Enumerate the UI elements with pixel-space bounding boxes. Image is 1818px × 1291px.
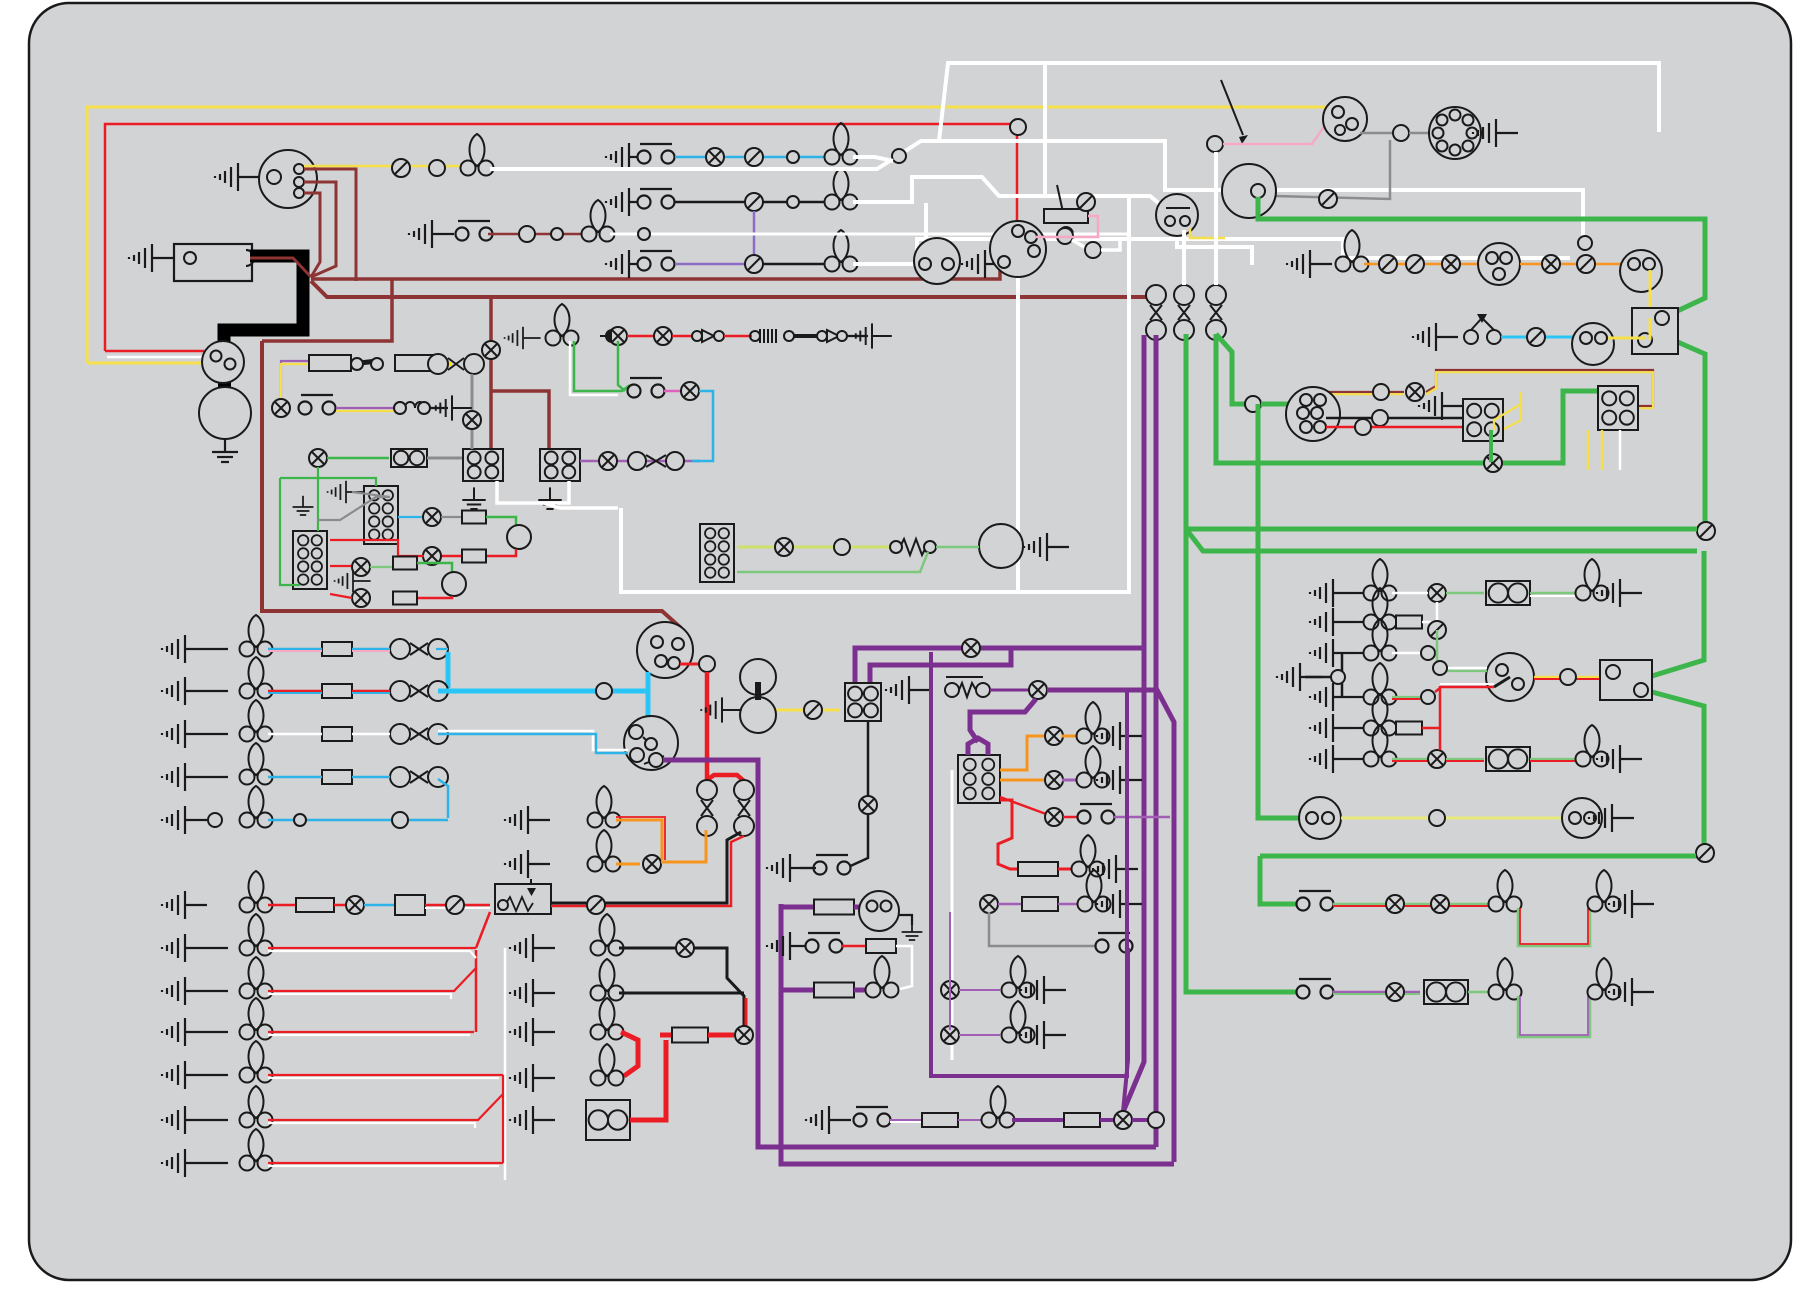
row D ground — [162, 763, 207, 791]
row2 ground — [431, 395, 472, 420]
map gnd1 — [1021, 976, 1066, 1004]
row C ground — [162, 720, 207, 748]
wire B cyan2 — [268, 692, 322, 694]
wire D w1 — [268, 776, 322, 779]
wire A pink — [268, 650, 322, 652]
wire T0 yellow — [304, 165, 467, 168]
orange slash2 — [1406, 255, 1424, 273]
horns node — [1429, 810, 1445, 826]
row M1 bulb — [591, 914, 624, 956]
wire orange heat2 — [1000, 779, 1046, 782]
multi connector — [1429, 107, 1481, 159]
r336 lampX1 — [609, 327, 627, 345]
gauge2 — [442, 572, 466, 596]
wire lilac bm2b — [1058, 903, 1080, 906]
wire red P5 — [1422, 727, 1440, 730]
wire purple V1144 — [1142, 335, 1147, 648]
wire O1 orange — [616, 820, 662, 860]
arrow ignition — [1221, 80, 1243, 135]
heat gnd1 — [1097, 722, 1142, 750]
multi conn ground — [1473, 119, 1518, 147]
green node slash — [1697, 522, 1715, 540]
wire lilac map2 — [959, 1034, 1000, 1036]
wire P3 lead — [1355, 652, 1368, 654]
wire green V2b — [1216, 334, 1250, 404]
wire gray web — [352, 492, 390, 497]
P2 fuse — [1396, 616, 1422, 629]
wire green V2 — [1216, 334, 1600, 463]
wire red r336c — [724, 335, 752, 338]
row E node2 — [294, 814, 306, 826]
fl lampX — [463, 411, 481, 429]
WE node2 — [1085, 242, 1101, 258]
row D bulb — [240, 743, 273, 785]
voltage regulator — [495, 884, 551, 914]
drop switch — [814, 855, 851, 875]
row T4 ground — [409, 220, 454, 248]
wire green drop336 — [618, 341, 625, 391]
P6 lampX — [1428, 750, 1446, 768]
drop ground — [767, 854, 812, 882]
gauge2 fuse2 — [393, 592, 417, 605]
map bulb2 — [1002, 1001, 1035, 1043]
wire G0 red — [268, 947, 476, 949]
P3 bulb — [1364, 619, 1397, 661]
ignsw node — [1433, 661, 1447, 675]
wire maroon main drop — [262, 341, 681, 628]
wire C white — [438, 731, 628, 750]
bm2 fuse — [1022, 897, 1058, 911]
wire fan up — [476, 912, 490, 948]
row M1 ground — [510, 934, 555, 962]
sw2 lampX1 — [1386, 983, 1404, 1001]
sw2 gnd — [1609, 978, 1654, 1006]
TP1 — [1146, 285, 1166, 340]
orange slash1 — [1379, 255, 1397, 273]
wire gray bm2 drop — [989, 912, 1098, 946]
P1 lampX — [1428, 584, 1446, 602]
row M3 ground — [510, 1018, 555, 1046]
wire M2 black — [619, 992, 744, 995]
wire maroon run B — [311, 281, 1148, 297]
wire lilac bm2 — [998, 903, 1022, 906]
heat bulb2 — [1077, 746, 1110, 788]
wire red gauge2 — [417, 596, 452, 598]
wire red zig — [998, 800, 1018, 869]
wire purple Q5 — [1132, 1118, 1148, 1122]
P5 fuse — [1396, 722, 1422, 735]
wire green P1 — [1446, 592, 1484, 595]
row G5 ground — [162, 1149, 207, 1177]
conn A — [463, 449, 503, 481]
distributor — [259, 150, 317, 208]
speedo row bulb — [1336, 230, 1369, 272]
wire purple heater2 — [970, 699, 1036, 742]
wire yellow-green horn — [737, 546, 900, 549]
wire M3 red thick — [621, 1032, 638, 1076]
wire lilac Q — [890, 1119, 922, 1121]
gauge2 lampX — [352, 558, 370, 576]
wire P1 lead — [1355, 592, 1368, 594]
wire white Q — [890, 1121, 922, 1123]
sw1 gnd — [1609, 890, 1654, 918]
row O2 bulb — [588, 830, 621, 872]
wire green chev3 — [1652, 692, 1704, 844]
wire white W4 — [939, 63, 1659, 141]
py tph — [428, 354, 484, 374]
line fuse — [1044, 209, 1088, 223]
wire white tp3 stub — [1214, 152, 1218, 285]
r336 coil — [750, 329, 794, 343]
ignition switch — [1323, 97, 1367, 141]
wire A lead — [207, 648, 228, 650]
wire green ignsw — [1440, 670, 1487, 672]
wire green web4 — [318, 497, 390, 520]
wire C w1 — [268, 733, 322, 736]
sw1 lampX2 — [1431, 895, 1449, 913]
wire red gauge1 — [441, 549, 516, 556]
wire T4 maroon — [488, 233, 586, 236]
wire green horn3 — [936, 546, 979, 549]
wire red P6b — [1439, 728, 1442, 750]
row T1 lamp — [706, 148, 724, 166]
wire cyan corner — [692, 391, 713, 461]
wire drop lead — [800, 867, 816, 869]
wire M1 black — [619, 948, 744, 1026]
wire O2 orange — [616, 863, 640, 866]
row T2 node — [787, 196, 799, 208]
wire cyan bigU — [640, 689, 648, 694]
wire red r336 — [627, 335, 654, 338]
gauge1 fuse2 — [462, 550, 486, 563]
alternator slash — [1319, 190, 1337, 208]
wire purple heat3 — [1114, 816, 1170, 819]
row F ground — [162, 891, 207, 919]
row B fuse — [322, 684, 352, 698]
WA node2 — [1578, 236, 1592, 250]
wire red gauge2b — [330, 594, 352, 598]
wire red ign — [680, 663, 700, 666]
wire maroon dist 2 — [304, 182, 336, 277]
ignition node — [1207, 136, 1223, 152]
wire red heat2 — [1063, 816, 1078, 819]
wire red r336b — [672, 335, 694, 338]
wire yellow supply top — [87, 107, 1350, 363]
green lamp — [1484, 454, 1502, 472]
heat gnd2 — [1097, 766, 1142, 794]
P2 bulb — [1364, 588, 1397, 630]
gauge1 lampX — [423, 508, 441, 526]
wire pair right — [1426, 370, 1653, 406]
wire pink fuse — [1035, 216, 1098, 237]
row E node3 — [392, 812, 408, 828]
horn sounder ground — [1024, 533, 1069, 561]
starter motor — [199, 387, 251, 439]
wire red flasher feed — [1016, 124, 1019, 228]
wire B lead — [207, 690, 228, 692]
bm2 lampX — [980, 895, 998, 913]
wire green h529 — [1186, 527, 1697, 532]
wire green ring right — [1652, 551, 1704, 676]
wire red P6d — [1530, 760, 1576, 762]
wire G2 lead — [207, 1031, 228, 1033]
wire G4 lead — [207, 1119, 228, 1121]
wire purple fuelrow — [781, 905, 814, 910]
WA node — [892, 149, 906, 163]
wire yellow connB2 — [1601, 430, 1604, 470]
int bulb — [866, 956, 899, 998]
column connector — [914, 238, 960, 284]
wire maroon jog — [262, 279, 392, 341]
wire white elbow2 — [570, 341, 618, 395]
wire black fuel — [898, 915, 912, 925]
wire green gauge1 — [486, 517, 516, 526]
wire magenta r391 — [664, 390, 682, 393]
wire P6 lead — [1355, 758, 1368, 760]
P5 ground — [1310, 714, 1355, 742]
row T1 ground — [606, 143, 651, 171]
wire G0 white — [268, 951, 476, 958]
wire orange speedo — [1520, 263, 1628, 266]
instrument cluster — [1286, 387, 1340, 441]
wire white heater — [951, 770, 954, 1060]
r336 diode — [692, 331, 702, 341]
wire white WB — [853, 157, 893, 161]
heater conn — [958, 755, 1000, 803]
int fuse — [814, 983, 854, 998]
wire yellow connB1 — [1587, 430, 1590, 470]
row G2 bulb — [240, 998, 273, 1040]
row D tph — [390, 767, 448, 787]
wire F red2 — [334, 904, 346, 907]
wire purple inner ring — [931, 652, 1127, 1076]
bm2 bulb — [1078, 870, 1111, 912]
B node — [596, 683, 612, 699]
wire purple Q4 — [1100, 1118, 1114, 1122]
row2 lampX — [272, 399, 290, 417]
wire white conn out — [544, 503, 618, 508]
wire green V1 — [1186, 334, 1300, 992]
mid lampX — [962, 639, 980, 657]
wire yellow to solenoid — [87, 362, 203, 365]
M3 lampX2 — [735, 1026, 753, 1044]
M3 fuse — [672, 1028, 708, 1043]
row G4 bulb — [240, 1086, 273, 1128]
wire yellow gauge — [1608, 337, 1645, 340]
wire green h855 — [1260, 854, 1696, 859]
fuel gauge — [1572, 323, 1614, 365]
wire pink ignition — [1223, 112, 1334, 144]
wire white WA — [490, 141, 1583, 238]
wire red supply top — [105, 124, 1017, 351]
wire purple mid 2 — [870, 650, 1011, 686]
relay right — [1600, 660, 1652, 700]
horn sounder — [979, 524, 1023, 568]
conn8 upper ground — [328, 481, 364, 503]
wire red P6 — [1392, 760, 1428, 762]
wire B cyan — [438, 689, 646, 694]
wire white connB — [1619, 430, 1622, 470]
ign sw right — [1486, 653, 1534, 701]
rowQ bulb — [982, 1086, 1015, 1128]
wire maroon coil link — [250, 258, 311, 277]
wire yellow speedo — [1649, 270, 1652, 318]
wire white col2 — [924, 203, 928, 252]
wire red P4b — [1435, 688, 1440, 728]
P1 box2 — [1486, 581, 1530, 605]
row T4 node2 — [551, 228, 563, 240]
wire T2 black — [675, 201, 830, 204]
conn8 upper — [364, 486, 398, 544]
wire A w2 — [352, 648, 390, 651]
wire T3 black — [763, 263, 830, 266]
row2 coil — [395, 402, 425, 408]
r391 gstub — [505, 327, 541, 349]
row M4 bulb — [591, 1044, 624, 1086]
flasher unit — [990, 221, 1046, 277]
wire orange heat1b — [1062, 735, 1076, 738]
wire red P4 — [1392, 698, 1420, 700]
r336 ground — [851, 323, 892, 348]
drop lampX — [859, 796, 877, 814]
wire A w1 — [268, 648, 322, 651]
rowQ node — [1148, 1112, 1164, 1128]
rheostat — [1464, 330, 1478, 344]
wire green chev2 — [1673, 340, 1705, 525]
wire py to fuse — [281, 360, 308, 362]
wire purple V1156b — [1154, 1128, 1159, 1147]
wire greenred sw1 — [1333, 903, 1490, 906]
row B ground — [162, 677, 207, 705]
P3 ground — [1310, 639, 1355, 667]
P2 ground — [1310, 608, 1355, 636]
P1 bulb — [1364, 559, 1397, 601]
wire purple od — [663, 760, 758, 880]
gauge1 fuse — [462, 511, 486, 524]
P5 bulb — [1364, 694, 1397, 736]
M5 box2 — [586, 1100, 630, 1140]
wire yellow relayrow — [770, 709, 840, 712]
wire purple heat2b — [1062, 779, 1076, 782]
horn2 — [1562, 798, 1602, 838]
row B tph — [390, 681, 448, 701]
sw2 bulb2 — [1588, 958, 1621, 1000]
fuel pump — [859, 891, 899, 931]
wire F white — [425, 907, 490, 909]
heat switch — [1078, 804, 1115, 824]
wire P2 lead — [1355, 621, 1368, 623]
wire white ignsw — [1440, 667, 1487, 670]
cluster node r — [1355, 419, 1371, 435]
wire redwhite pair — [1440, 686, 1494, 688]
wire orange tacho — [1364, 263, 1478, 266]
wire green main — [1258, 197, 1705, 313]
wire sw2 U pur — [1520, 996, 1588, 1035]
wire D lead — [207, 776, 228, 778]
wire purple diag — [1123, 648, 1144, 1112]
row T3 bulb — [825, 230, 858, 272]
wire gray alternator — [1274, 140, 1390, 199]
wire white P1 — [1392, 592, 1428, 595]
heat lampX1 — [1045, 727, 1063, 745]
bm switch — [806, 933, 843, 953]
heat fuse — [1018, 862, 1058, 876]
ignsw node2 — [1560, 669, 1576, 685]
wire purple K2 — [1047, 690, 1174, 1162]
P4 bulb — [1364, 663, 1397, 705]
P6 ground — [1310, 745, 1355, 773]
wire B w1 — [268, 690, 322, 693]
conn A ground — [1419, 392, 1464, 420]
horn2 gnd — [1589, 804, 1634, 832]
alternator — [1222, 164, 1276, 218]
wire cyan gauge1 — [398, 516, 424, 518]
O2 lampX — [643, 855, 661, 873]
wire red low — [330, 565, 352, 567]
P1 gnd2 — [1597, 579, 1642, 607]
wire purple ringB — [781, 904, 1174, 1164]
wire purple int2 — [854, 988, 866, 993]
flasher node — [1010, 119, 1026, 135]
wire purple mid top — [855, 648, 1144, 686]
conn B ground2 — [538, 487, 561, 509]
wire purple heater — [968, 738, 988, 755]
row E node — [208, 813, 222, 827]
row T1 node — [787, 151, 799, 163]
wire purple-yellow drop — [280, 360, 282, 406]
heat bulb3 — [1072, 835, 1105, 877]
py fuse2 — [395, 355, 437, 371]
wire gray fl drop — [471, 374, 474, 449]
sw1 bulb1 — [1489, 870, 1522, 912]
rowQ fuse2 — [1064, 1113, 1100, 1127]
wire green web1 — [317, 467, 319, 531]
maroon lampX — [482, 341, 500, 359]
heat lampX3 — [1045, 808, 1063, 826]
row G5 bulb — [240, 1129, 273, 1171]
tachometer — [1478, 243, 1520, 285]
fork ground — [1277, 663, 1322, 691]
M1 lampX — [676, 939, 694, 957]
wire M2 red — [745, 998, 748, 1026]
T0 bulb — [461, 134, 494, 176]
wire green P6 — [1392, 758, 1428, 760]
wire green V3b — [1258, 552, 1303, 818]
row2 switch — [299, 395, 336, 415]
row C bulb — [240, 700, 273, 742]
row C fuse — [322, 727, 352, 741]
row T3 connector — [745, 255, 763, 273]
row T1 connector — [745, 148, 763, 166]
wire green ctrl — [327, 457, 389, 460]
r336 lampX2 — [654, 327, 672, 345]
WE node — [1057, 228, 1073, 244]
row G3 ground — [162, 1061, 207, 1089]
conn A ground2 — [462, 487, 485, 509]
wire black row2 — [430, 407, 448, 409]
rowK ground — [886, 676, 931, 704]
wire maroon dist 1 — [304, 169, 356, 281]
P6 bulb — [1364, 725, 1397, 767]
slash node top — [1077, 193, 1095, 211]
wire lilac Q2 — [958, 1119, 982, 1121]
row G1 ground — [162, 977, 207, 1005]
wire maroon dist 3 — [304, 193, 320, 277]
r336 diode2 — [817, 331, 827, 341]
wire greenred P4 — [1392, 696, 1420, 698]
wire C w2 — [352, 733, 390, 736]
wire purplegreen sw2 — [1333, 991, 1420, 994]
